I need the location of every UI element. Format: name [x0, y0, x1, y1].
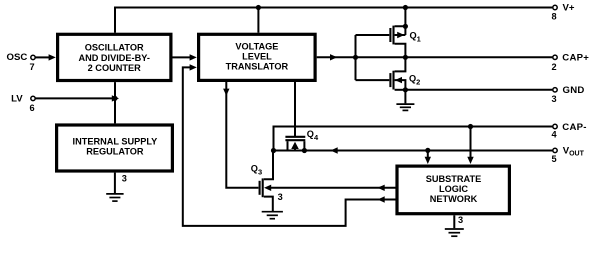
svg-text:Q1: Q1 — [410, 31, 421, 44]
svg-text:NETWORK: NETWORK — [430, 194, 478, 204]
svg-text:5: 5 — [551, 154, 556, 164]
svg-text:3: 3 — [122, 173, 127, 183]
svg-text:CAP+: CAP+ — [562, 52, 589, 63]
svg-text:OSC: OSC — [7, 52, 28, 63]
svg-text:VOUT: VOUT — [563, 146, 585, 158]
svg-text:V+: V+ — [563, 2, 575, 13]
svg-text:3: 3 — [551, 94, 556, 104]
svg-text:Q4: Q4 — [307, 129, 319, 142]
svg-text:3: 3 — [458, 215, 463, 225]
svg-text:LV: LV — [11, 93, 23, 104]
svg-text:Q3: Q3 — [251, 164, 262, 177]
svg-text:VOLTAGE: VOLTAGE — [235, 41, 278, 51]
svg-text:3: 3 — [278, 192, 283, 202]
svg-text:INTERNAL SUPPLY: INTERNAL SUPPLY — [73, 136, 158, 146]
svg-text:7: 7 — [29, 62, 34, 72]
svg-text:4: 4 — [551, 130, 557, 140]
svg-text:LEVEL: LEVEL — [242, 51, 272, 61]
svg-text:GND: GND — [563, 85, 585, 96]
svg-text:OSCILLATOR: OSCILLATOR — [85, 42, 144, 52]
svg-text:2 COUNTER: 2 COUNTER — [88, 63, 141, 73]
svg-text:CAP-: CAP- — [562, 122, 586, 133]
svg-text:Q2: Q2 — [409, 74, 420, 87]
svg-text:SUBSTRATE: SUBSTRATE — [426, 174, 481, 184]
svg-text:LOGIC: LOGIC — [439, 184, 468, 194]
svg-text:6: 6 — [29, 103, 34, 113]
svg-text:8: 8 — [551, 11, 556, 21]
svg-text:2: 2 — [551, 62, 556, 72]
svg-text:TRANSLATOR: TRANSLATOR — [226, 61, 289, 71]
svg-text:REGULATOR: REGULATOR — [86, 146, 144, 156]
svg-text:AND DIVIDE-BY-: AND DIVIDE-BY- — [78, 53, 149, 63]
